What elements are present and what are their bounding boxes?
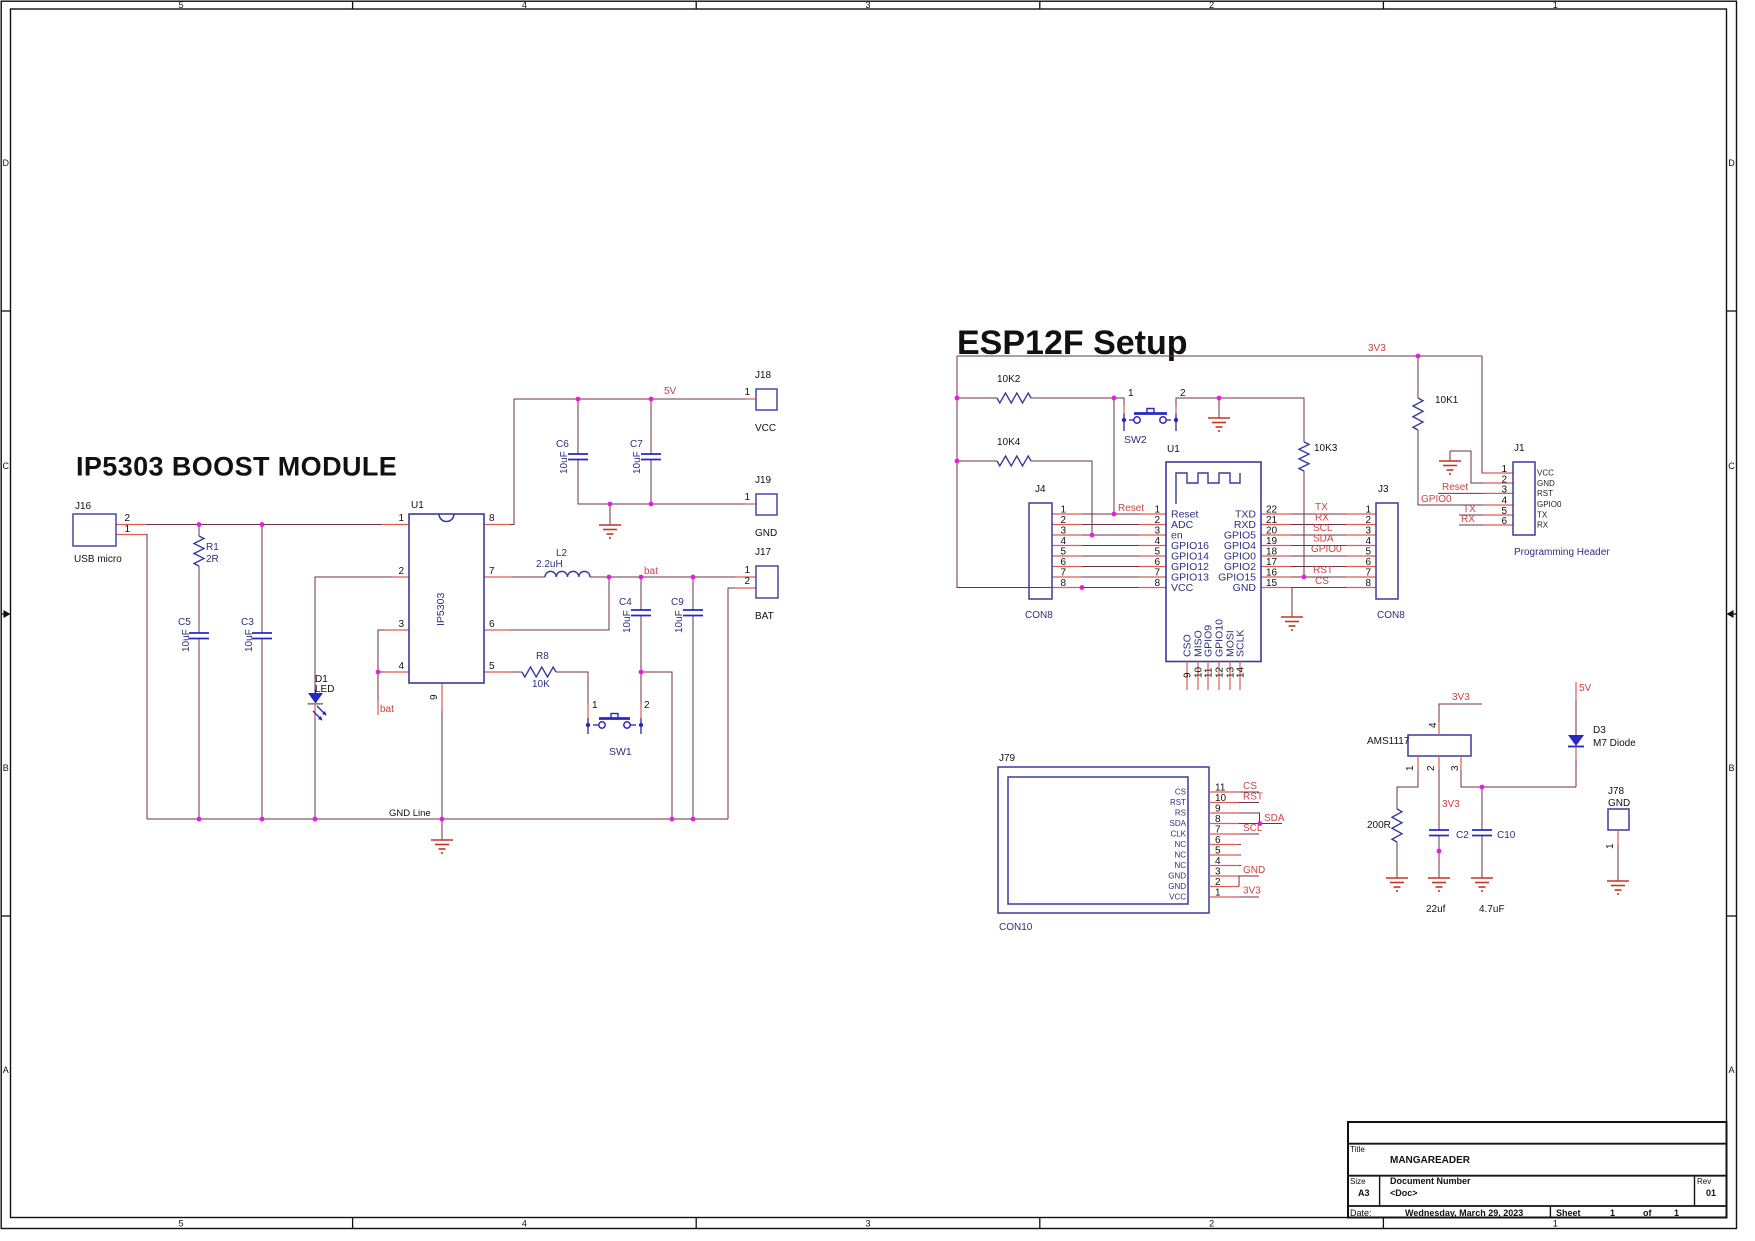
svg-text:A3: A3 xyxy=(1358,1188,1370,1198)
svg-text:NC: NC xyxy=(1174,851,1186,860)
svg-text:TX: TX xyxy=(1315,502,1328,513)
svg-text:8: 8 xyxy=(1154,578,1160,589)
svg-text:L2: L2 xyxy=(556,548,568,559)
svg-text:SW1: SW1 xyxy=(609,746,632,758)
svg-text:NC: NC xyxy=(1174,861,1186,870)
svg-text:2: 2 xyxy=(1209,1218,1214,1228)
svg-text:SDA: SDA xyxy=(1264,813,1285,824)
svg-text:Programming Header: Programming Header xyxy=(1514,547,1610,558)
svg-text:bat: bat xyxy=(380,704,394,715)
svg-text:GPIO0: GPIO0 xyxy=(1537,500,1562,509)
svg-text:C3: C3 xyxy=(241,617,254,628)
svg-text:D: D xyxy=(1728,158,1735,168)
svg-text:10K: 10K xyxy=(532,679,550,690)
svg-text:3V3: 3V3 xyxy=(1452,692,1470,703)
svg-text:3: 3 xyxy=(1365,526,1371,537)
svg-text:C9: C9 xyxy=(671,597,684,608)
svg-text:VCC: VCC xyxy=(755,423,776,434)
svg-text:GPIO0: GPIO0 xyxy=(1311,544,1342,555)
svg-text:GND: GND xyxy=(755,528,777,539)
svg-text:GND: GND xyxy=(1243,865,1265,876)
svg-text:VCC: VCC xyxy=(1537,469,1554,478)
svg-text:5: 5 xyxy=(178,0,183,10)
svg-text:RST: RST xyxy=(1170,798,1186,807)
svg-text:J16: J16 xyxy=(75,501,92,512)
svg-text:2: 2 xyxy=(1215,877,1221,888)
svg-text:4: 4 xyxy=(522,1218,527,1228)
svg-text:CON10: CON10 xyxy=(999,922,1033,933)
svg-text:NC: NC xyxy=(1174,840,1186,849)
svg-text:5: 5 xyxy=(1215,846,1221,857)
svg-text:8: 8 xyxy=(489,513,495,524)
svg-text:2: 2 xyxy=(398,566,404,577)
svg-text:1: 1 xyxy=(592,700,598,711)
svg-text:5V: 5V xyxy=(1579,683,1592,694)
svg-text:200R: 200R xyxy=(1367,820,1391,831)
svg-text:C2: C2 xyxy=(1456,830,1469,841)
svg-text:22: 22 xyxy=(1266,505,1278,516)
svg-text:4: 4 xyxy=(1365,536,1371,547)
svg-text:RST: RST xyxy=(1243,792,1263,803)
svg-text:B: B xyxy=(1728,763,1734,773)
svg-text:5: 5 xyxy=(1365,547,1371,558)
svg-text:1: 1 xyxy=(1405,765,1416,771)
svg-text:GPIO0: GPIO0 xyxy=(1421,494,1452,505)
svg-text:19: 19 xyxy=(1266,536,1278,547)
svg-text:1: 1 xyxy=(744,565,750,576)
svg-text:3: 3 xyxy=(1501,484,1507,495)
svg-text:4: 4 xyxy=(398,661,404,672)
svg-text:1: 1 xyxy=(1215,888,1221,899)
svg-text:GND: GND xyxy=(1233,582,1257,594)
svg-text:3: 3 xyxy=(1215,867,1221,878)
svg-text:10: 10 xyxy=(1215,793,1227,804)
svg-text:J4: J4 xyxy=(1035,484,1046,495)
svg-text:7: 7 xyxy=(1060,568,1066,579)
svg-text:SW2: SW2 xyxy=(1124,434,1147,446)
svg-text:RST: RST xyxy=(1313,565,1333,576)
svg-text:2: 2 xyxy=(744,576,750,587)
svg-text:2: 2 xyxy=(1209,0,1214,10)
svg-text:18: 18 xyxy=(1266,547,1278,558)
svg-text:Rev: Rev xyxy=(1697,1177,1711,1186)
svg-text:M7 Diode: M7 Diode xyxy=(1593,738,1636,749)
svg-text:22uf: 22uf xyxy=(1426,904,1446,915)
svg-text:21: 21 xyxy=(1266,515,1278,526)
svg-text:1: 1 xyxy=(1154,505,1160,516)
svg-text:Reset: Reset xyxy=(1118,503,1144,514)
svg-text:RS: RS xyxy=(1175,809,1186,818)
svg-text:IP5303: IP5303 xyxy=(435,593,447,626)
svg-text:3: 3 xyxy=(865,0,870,10)
svg-text:3V3: 3V3 xyxy=(1368,343,1386,354)
svg-text:SDA: SDA xyxy=(1170,819,1187,828)
svg-text:7: 7 xyxy=(1154,568,1160,579)
svg-text:4: 4 xyxy=(1215,856,1221,867)
svg-text:A: A xyxy=(3,1065,9,1075)
svg-text:2: 2 xyxy=(1154,515,1160,526)
svg-text:3: 3 xyxy=(398,619,404,630)
svg-text:VCC: VCC xyxy=(1169,893,1186,902)
svg-text:C7: C7 xyxy=(630,439,643,450)
svg-text:1: 1 xyxy=(1060,505,1066,516)
svg-text:2: 2 xyxy=(1365,515,1371,526)
svg-text:SCL: SCL xyxy=(1243,823,1263,834)
svg-text:16: 16 xyxy=(1266,568,1278,579)
svg-text:1: 1 xyxy=(398,513,404,524)
svg-text:<Doc>: <Doc> xyxy=(1390,1188,1418,1198)
svg-text:3: 3 xyxy=(1060,526,1066,537)
svg-text:7: 7 xyxy=(1365,568,1371,579)
svg-text:10uF: 10uF xyxy=(244,629,255,652)
svg-text:4: 4 xyxy=(1060,536,1066,547)
svg-text:SCL: SCL xyxy=(1313,523,1333,534)
svg-text:10uF: 10uF xyxy=(559,451,570,474)
svg-text:3: 3 xyxy=(865,1218,870,1228)
svg-text:GND Line: GND Line xyxy=(389,808,431,819)
svg-text:USB micro: USB micro xyxy=(74,554,122,565)
svg-text:10uF: 10uF xyxy=(632,451,643,474)
svg-text:U1: U1 xyxy=(1167,444,1180,455)
svg-text:2: 2 xyxy=(1180,388,1186,399)
svg-text:11: 11 xyxy=(1204,667,1215,678)
svg-text:2.2uH: 2.2uH xyxy=(536,559,563,570)
svg-text:10K2: 10K2 xyxy=(997,374,1021,385)
svg-text:6: 6 xyxy=(1154,557,1160,568)
svg-text:10K3: 10K3 xyxy=(1314,443,1338,454)
svg-text:4: 4 xyxy=(1154,536,1160,547)
svg-text:of: of xyxy=(1643,1208,1652,1218)
svg-text:CON8: CON8 xyxy=(1025,610,1053,621)
svg-text:10uF: 10uF xyxy=(674,610,685,633)
svg-text:1: 1 xyxy=(1674,1208,1679,1218)
svg-text:C: C xyxy=(1728,461,1735,471)
svg-text:GND: GND xyxy=(1537,479,1555,488)
svg-text:1: 1 xyxy=(1610,1208,1615,1218)
svg-text:3: 3 xyxy=(1154,526,1160,537)
svg-text:CLK: CLK xyxy=(1170,830,1186,839)
svg-text:2R: 2R xyxy=(206,554,219,565)
svg-text:A: A xyxy=(1728,1065,1734,1075)
svg-text:1: 1 xyxy=(1365,505,1371,516)
svg-text:2: 2 xyxy=(1426,765,1437,771)
svg-text:9: 9 xyxy=(429,694,440,700)
svg-text:RX: RX xyxy=(1461,514,1475,525)
svg-text:20: 20 xyxy=(1266,526,1278,537)
svg-text:Document Number: Document Number xyxy=(1390,1176,1471,1186)
svg-text:C4: C4 xyxy=(619,597,632,608)
svg-text:11: 11 xyxy=(1215,783,1226,794)
svg-text:10K1: 10K1 xyxy=(1435,395,1459,406)
svg-text:Wednesday, March 29, 2023: Wednesday, March 29, 2023 xyxy=(1405,1208,1523,1218)
svg-text:D: D xyxy=(3,158,10,168)
svg-text:9: 9 xyxy=(1215,804,1221,815)
svg-text:5: 5 xyxy=(489,661,495,672)
svg-text:4: 4 xyxy=(522,0,527,10)
svg-text:8: 8 xyxy=(1060,578,1066,589)
svg-text:Title: Title xyxy=(1350,1145,1365,1154)
svg-text:SCLK: SCLK xyxy=(1235,630,1247,657)
svg-text:12: 12 xyxy=(1215,666,1226,678)
svg-text:6: 6 xyxy=(1365,557,1371,568)
svg-text:6: 6 xyxy=(1060,557,1066,568)
svg-text:10K4: 10K4 xyxy=(997,437,1021,448)
svg-text:BAT: BAT xyxy=(755,611,774,622)
svg-text:C6: C6 xyxy=(556,439,569,450)
svg-text:U1: U1 xyxy=(411,500,424,511)
svg-text:AMS1117: AMS1117 xyxy=(1367,736,1410,747)
svg-text:J1: J1 xyxy=(1514,443,1525,454)
svg-text:CS: CS xyxy=(1315,576,1329,587)
svg-text:TX: TX xyxy=(1537,511,1548,520)
svg-text:J17: J17 xyxy=(755,547,772,558)
svg-text:Date:: Date: xyxy=(1350,1208,1372,1218)
svg-text:CS: CS xyxy=(1243,781,1257,792)
svg-text:1: 1 xyxy=(1553,0,1558,10)
svg-text:CS: CS xyxy=(1175,788,1186,797)
svg-text:1: 1 xyxy=(744,387,750,398)
svg-text:3V3: 3V3 xyxy=(1243,886,1261,897)
svg-text:8: 8 xyxy=(1215,814,1221,825)
svg-text:10uF: 10uF xyxy=(181,629,192,652)
svg-text:MANGAREADER: MANGAREADER xyxy=(1390,1155,1471,1166)
svg-text:4.7uF: 4.7uF xyxy=(1479,904,1505,915)
svg-text:5: 5 xyxy=(1060,547,1066,558)
svg-text:5: 5 xyxy=(178,1218,183,1228)
svg-text:SDA: SDA xyxy=(1313,534,1334,545)
svg-text:bat: bat xyxy=(644,566,658,577)
svg-text:J19: J19 xyxy=(755,475,772,486)
svg-text:1: 1 xyxy=(744,492,750,503)
svg-text:5: 5 xyxy=(1154,547,1160,558)
svg-text:2: 2 xyxy=(1060,515,1066,526)
svg-text:J3: J3 xyxy=(1378,484,1389,495)
svg-text:Sheet: Sheet xyxy=(1556,1208,1581,1218)
svg-text:8: 8 xyxy=(1365,578,1371,589)
svg-text:9: 9 xyxy=(1183,672,1194,678)
svg-text:R1: R1 xyxy=(206,542,219,553)
svg-text:GND: GND xyxy=(1168,872,1186,881)
svg-text:RX: RX xyxy=(1315,513,1329,524)
svg-text:Size: Size xyxy=(1350,1177,1366,1186)
svg-text:R8: R8 xyxy=(536,651,549,662)
svg-text:C10: C10 xyxy=(1497,830,1516,841)
svg-text:10uF: 10uF xyxy=(622,610,633,633)
svg-text:VCC: VCC xyxy=(1171,582,1194,594)
svg-text:J79: J79 xyxy=(999,753,1016,764)
svg-text:17: 17 xyxy=(1266,557,1278,568)
svg-text:C5: C5 xyxy=(178,617,191,628)
svg-text:GND: GND xyxy=(1168,882,1186,891)
svg-text:15: 15 xyxy=(1266,578,1278,589)
svg-text:14: 14 xyxy=(1236,666,1247,678)
svg-text:3: 3 xyxy=(1450,765,1461,771)
svg-text:5V: 5V xyxy=(664,386,677,397)
svg-text:1: 1 xyxy=(1128,388,1134,399)
svg-text:RX: RX xyxy=(1537,521,1549,530)
svg-text:GND: GND xyxy=(1608,798,1630,809)
svg-text:J18: J18 xyxy=(755,370,772,381)
svg-text:IP5303 BOOST MODULE: IP5303 BOOST MODULE xyxy=(76,452,397,482)
svg-text:4: 4 xyxy=(1428,722,1439,728)
svg-text:B: B xyxy=(3,763,9,773)
svg-text:1: 1 xyxy=(1553,1218,1558,1228)
svg-text:1: 1 xyxy=(124,524,130,535)
svg-text:1: 1 xyxy=(1605,843,1616,849)
svg-text:J78: J78 xyxy=(1608,786,1625,797)
svg-text:C: C xyxy=(3,461,10,471)
svg-text:7: 7 xyxy=(1215,825,1221,836)
svg-text:3V3: 3V3 xyxy=(1442,799,1460,810)
svg-text:RST: RST xyxy=(1537,489,1553,498)
svg-text:D3: D3 xyxy=(1593,725,1606,736)
svg-text:01: 01 xyxy=(1706,1188,1716,1198)
svg-text:CON8: CON8 xyxy=(1377,610,1405,621)
svg-text:6: 6 xyxy=(489,619,495,630)
svg-text:6: 6 xyxy=(1215,835,1221,846)
svg-text:7: 7 xyxy=(489,566,495,577)
svg-text:2: 2 xyxy=(124,513,130,524)
svg-text:2: 2 xyxy=(644,700,650,711)
svg-text:6: 6 xyxy=(1501,516,1507,527)
svg-text:Reset: Reset xyxy=(1442,482,1468,493)
